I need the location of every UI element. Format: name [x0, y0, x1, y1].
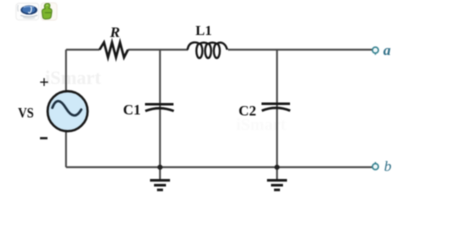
svg-text:iSmart: iSmart	[45, 68, 102, 89]
svg-text:L1: L1	[196, 24, 212, 39]
svg-text:+: +	[39, 73, 49, 92]
svg-text:C2: C2	[239, 104, 257, 120]
svg-text:VS: VS	[18, 106, 34, 122]
svg-text:a: a	[383, 43, 391, 59]
svg-text:b: b	[384, 159, 392, 175]
svg-text:C1: C1	[123, 103, 141, 119]
svg-text:R: R	[109, 25, 120, 41]
